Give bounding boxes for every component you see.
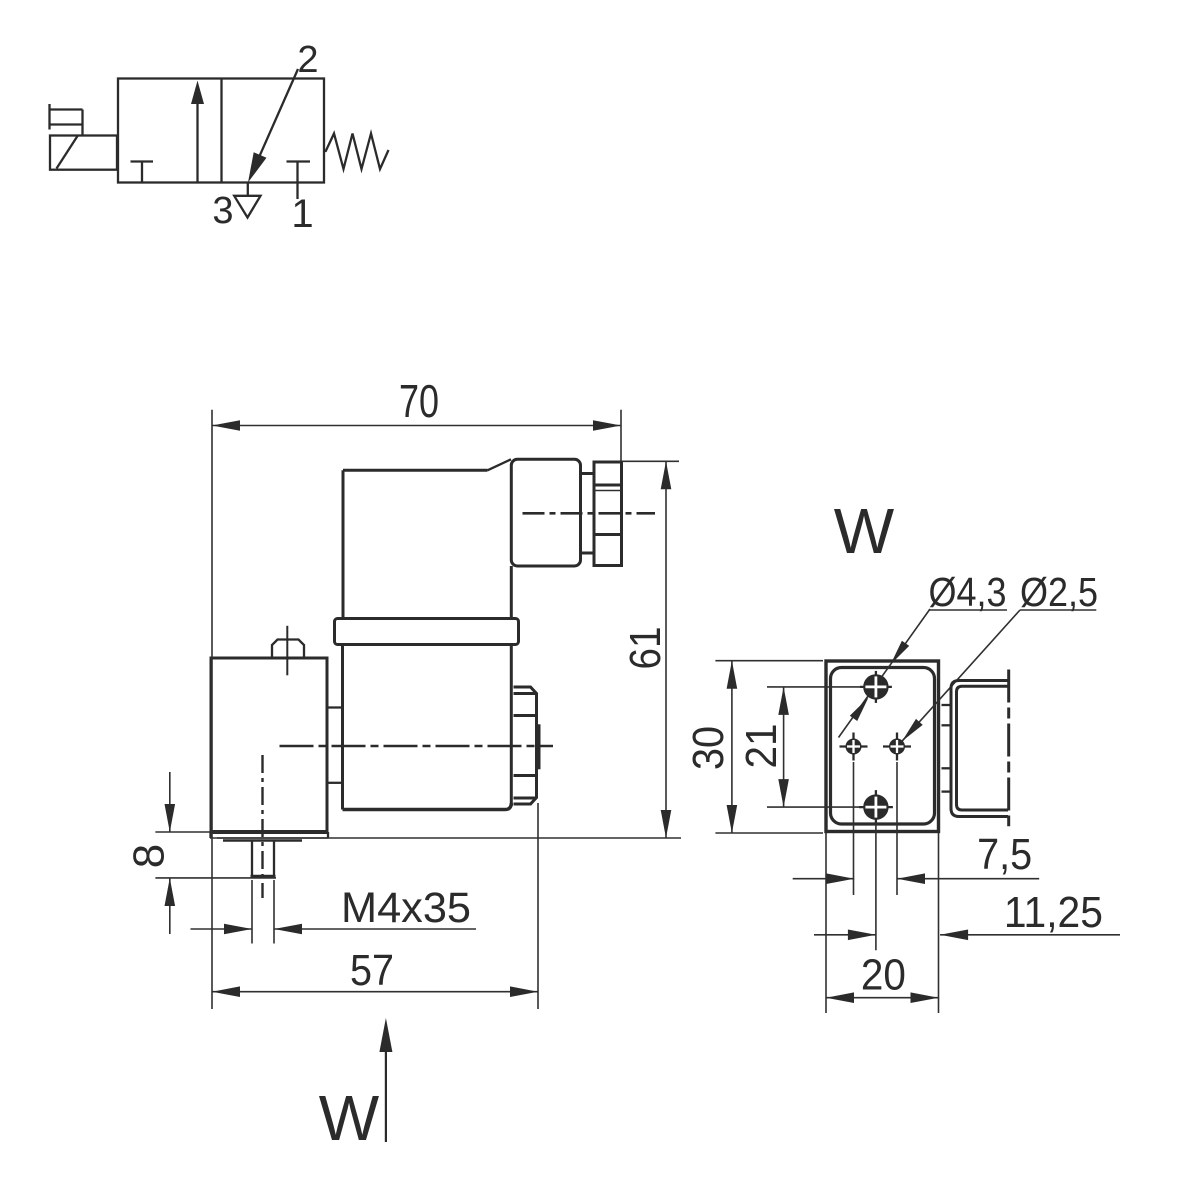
gland groove line 1	[594, 484, 622, 487]
M4 dim line left	[191, 928, 253, 930]
M4 arrow right-pointing	[224, 924, 252, 935]
connector profile inner	[957, 686, 1009, 810]
gasket tab line 1	[942, 704, 952, 706]
svg-text:11,25: 11,25	[1004, 888, 1103, 937]
svg-text:Ø2,5: Ø2,5	[1020, 569, 1098, 615]
21 top extension	[767, 686, 861, 688]
coil bottom edge	[343, 803, 512, 810]
connector centerline	[523, 512, 656, 515]
svg-text:1: 1	[291, 192, 313, 236]
dim 57 line	[212, 991, 538, 993]
dim 70 arrow left	[212, 420, 240, 431]
right pilot hole (Ø2,5)	[889, 739, 905, 755]
pilot block bottom edge thick	[210, 830, 329, 834]
W view arrow head	[379, 1018, 392, 1052]
61 top extension	[623, 460, 680, 462]
dim 30 arrow up	[727, 661, 738, 689]
mounting screw shank right	[273, 841, 275, 877]
blocked port T stem	[141, 162, 143, 183]
8 bottom extension	[155, 877, 276, 879]
svg-text:Ø4,3: Ø4,3	[929, 569, 1007, 615]
dim 8 upper segment	[169, 772, 171, 832]
top adjusting screw cap	[272, 640, 304, 657]
gasket tab line 2	[942, 724, 952, 726]
dia 4,3 leader line (under holes)	[839, 609, 931, 738]
cable gland body	[594, 462, 622, 566]
dim 8 arrow up	[165, 878, 176, 906]
switching path line 2->3	[251, 69, 299, 177]
joint strip bottom line	[327, 782, 343, 784]
W view arrow line	[385, 1048, 387, 1142]
pilot block body	[211, 658, 327, 832]
57 right extension	[537, 803, 539, 1009]
30 top extension	[715, 660, 823, 662]
21 bottom extension	[767, 806, 860, 808]
M4 extension right	[273, 880, 275, 944]
mounting plate inner rounded face	[831, 668, 935, 825]
mounting screw shank left	[251, 841, 253, 877]
M4 extension left	[251, 880, 253, 944]
dim 70 line	[212, 425, 621, 427]
coil flange band	[335, 619, 519, 645]
svg-text:21: 21	[737, 724, 786, 769]
nut groove 4	[514, 797, 537, 800]
switching path arrow head	[248, 152, 267, 182]
left hole extension line	[853, 762, 855, 895]
coil lower body left edge	[341, 645, 344, 810]
right pilot hole crosshair	[883, 733, 911, 761]
centre extension line	[875, 822, 877, 950]
dim 57 arrow right	[510, 986, 538, 997]
bottom mounting hole (Ø4,3)	[863, 794, 888, 819]
dia 4,3 leader arrow upper	[891, 641, 910, 665]
dim 11,25 line left	[814, 934, 876, 936]
dia 2,5 leader arrow	[902, 719, 923, 741]
screw centerline	[261, 755, 263, 898]
svg-text:30: 30	[684, 726, 733, 770]
bottom hole crosshair	[859, 790, 893, 824]
solenoid lead bottom	[50, 123, 83, 125]
dim 20 line	[826, 997, 939, 999]
dia 4,3 leader arrow lower	[850, 697, 869, 721]
coil lower body right edge	[510, 645, 513, 807]
return spring	[324, 134, 389, 170]
solenoid lead frame left bar	[48, 104, 50, 130]
svg-text:2: 2	[297, 39, 318, 81]
top screw centerline	[286, 626, 288, 676]
dim 7,5 arrow right-pointing	[826, 873, 854, 884]
mounting plate outer rect	[826, 661, 939, 832]
dim 20 arrow right	[911, 992, 939, 1003]
dia 4,3 underline	[929, 609, 1007, 611]
gland groove line 3	[594, 533, 622, 536]
dia 2,5 leader line (under holes)	[902, 610, 1020, 741]
M4 arrow left-pointing	[274, 924, 302, 935]
dim 11,25 arrow right-pointing	[848, 930, 876, 941]
svg-text:20: 20	[861, 951, 906, 1000]
nut groove 1	[514, 692, 537, 695]
base plate left end	[209, 832, 211, 838]
nut groove 2	[514, 714, 537, 717]
svg-text:7,5: 7,5	[977, 830, 1032, 879]
solenoid lead right drop	[81, 110, 83, 136]
port 3 exhaust stem	[247, 183, 249, 196]
nut groove 3	[514, 774, 537, 777]
top mounting hole (Ø4,3)	[863, 674, 888, 699]
20 left extension	[825, 833, 827, 1013]
connector symmetry centerline	[1007, 670, 1010, 827]
20 right extension	[938, 833, 940, 1013]
body centerline	[280, 745, 554, 748]
port 1 T bar	[287, 160, 311, 162]
connector housing box	[511, 459, 580, 566]
dim 61 line	[665, 461, 667, 838]
dim 61 arrow up	[661, 461, 672, 489]
dim 11,25 arrow left-pointing	[940, 930, 968, 941]
dim 30 arrow down	[727, 805, 738, 833]
base plate bottom line	[210, 837, 329, 839]
base plate shadow line	[223, 839, 302, 842]
chamber divider line	[220, 79, 222, 183]
connector neck bottom	[581, 552, 595, 555]
coil top bevel	[488, 459, 512, 470]
coil top edge	[343, 469, 488, 472]
svg-text:61: 61	[621, 627, 670, 670]
mounting screw tip	[251, 875, 276, 878]
gland groove line 2	[594, 490, 622, 492]
svg-text:W: W	[834, 495, 895, 567]
connector profile outer	[951, 681, 1008, 817]
dim 20 arrow left	[826, 992, 854, 1003]
coil upper body left edge	[342, 470, 345, 618]
port 1 stem	[296, 162, 298, 200]
right extension line 70	[620, 410, 622, 461]
30 bottom extension	[715, 832, 823, 834]
8 top extension	[155, 831, 210, 833]
dim 57 arrow left	[212, 986, 240, 997]
svg-text:70: 70	[399, 375, 439, 427]
top hole crosshair	[860, 671, 892, 703]
svg-text:W: W	[319, 1082, 380, 1154]
solenoid box	[50, 136, 117, 170]
solenoid lead top	[50, 108, 83, 110]
solenoid diagonal	[57, 136, 78, 169]
base plate right end	[327, 832, 329, 838]
dim 8 arrow down	[165, 804, 176, 832]
svg-text:3: 3	[212, 190, 233, 232]
left pilot hole (Ø2,5)	[846, 739, 862, 755]
right hole extension line	[896, 762, 898, 895]
coil right edge upper	[510, 566, 513, 619]
connector neck top	[581, 472, 595, 475]
dim 61 arrow down	[661, 810, 672, 838]
flow arrow shaft (left chamber)	[196, 101, 198, 183]
svg-text:57: 57	[350, 946, 394, 995]
61 bottom extension / plate line	[217, 837, 681, 839]
dim 30 line	[731, 661, 733, 833]
dim 8 lower segment	[169, 878, 171, 934]
dim 21 arrow down	[778, 779, 789, 807]
left pilot hole crosshair	[840, 733, 868, 761]
port 3 exhaust triangle	[234, 196, 260, 218]
dim 21 line	[783, 687, 785, 807]
dim 11,25 line right	[940, 934, 1120, 936]
left extension line (70/57)	[211, 410, 213, 1009]
dim 70 arrow right	[593, 420, 621, 431]
svg-text:8: 8	[125, 844, 174, 868]
M4 dim line right	[274, 928, 476, 930]
dim 21 arrow up	[778, 687, 789, 715]
flow arrow head	[191, 81, 204, 104]
outlet nut outline	[514, 687, 537, 804]
gasket tab line 4	[942, 790, 952, 792]
gasket tab line 3	[942, 767, 952, 769]
svg-text:M4x35: M4x35	[341, 884, 471, 932]
nut bulge edge	[538, 724, 541, 769]
dim 7,5 arrow left-pointing	[897, 873, 925, 884]
dia 2,5 underline	[1020, 609, 1096, 611]
valve body box	[118, 79, 324, 183]
blocked port T (left chamber)	[131, 160, 154, 162]
joint strip top line	[327, 706, 343, 708]
dim 7,5 line left	[793, 878, 855, 880]
dim 7,5 line right	[897, 878, 1039, 880]
